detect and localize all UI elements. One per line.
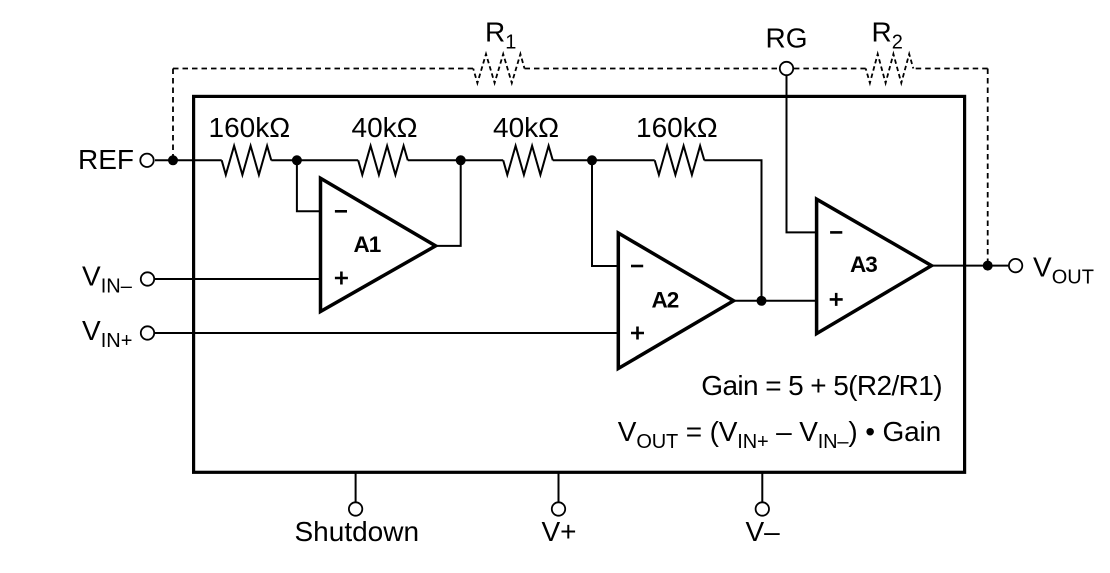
svg-text:VIN–: VIN–: [82, 261, 133, 298]
label R1: [485, 17, 516, 54]
node: junction dot B (A1 output tap): [456, 155, 466, 165]
wire: RG terminal down to A3 minus input: [787, 76, 817, 233]
pin Shutdown stub wire: [355, 472, 357, 501]
svg-text:Gain = 5 + 5(R2/R1): Gain = 5 + 5(R2/R1): [701, 370, 942, 401]
terminal RG (open circle): [780, 62, 793, 75]
svg-text:VOUT = (VIN+ – VIN–) • Gain: VOUT = (VIN+ – VIN–) • Gain: [618, 416, 941, 453]
node: junction dot A (A1 feedback tap): [292, 155, 302, 165]
label 160kOhm (first): [209, 112, 291, 143]
svg-text:VOUT: VOUT: [1033, 251, 1094, 288]
wire: dashed horizontal from RG terminal to R2: [794, 68, 866, 70]
svg-text:R1: R1: [485, 17, 516, 54]
wire: A3 output to VOUT terminal: [932, 265, 1009, 267]
wire: REF terminal to first resistor: [155, 159, 222, 161]
node: junction dot at VOUT: [983, 261, 993, 271]
terminal V- (open circle): [756, 502, 769, 515]
svg-text:V–: V–: [746, 516, 781, 547]
resistor 40k (third): [503, 146, 553, 175]
svg-text:160kΩ: 160kΩ: [209, 112, 291, 143]
label R2: [872, 17, 903, 54]
op-amp A3: [817, 199, 932, 333]
pin V+ stub wire: [558, 472, 560, 501]
wire: VIN- to A1 plus input: [155, 278, 321, 280]
svg-text:Shutdown: Shutdown: [295, 516, 420, 547]
terminal VOUT (open circle): [1009, 259, 1022, 272]
label V+: [542, 516, 577, 547]
wire: VIN+ to A2 plus input: [155, 332, 618, 334]
svg-text:40kΩ: 40kΩ: [493, 112, 559, 143]
wire: between resistor1 and resistor2: [271, 159, 358, 161]
terminal VIN+ (open circle): [141, 326, 154, 339]
resistor 160k (first): [222, 146, 272, 175]
svg-text:40kΩ: 40kΩ: [352, 112, 418, 143]
op-amp A2: [618, 233, 733, 369]
label V-: [746, 516, 781, 547]
svg-text:A3: A3: [850, 252, 877, 277]
node: junction dot C (A2 minus tap): [587, 155, 597, 165]
label REF: [78, 144, 134, 175]
wire: between resistor3 and resistor4: [553, 159, 655, 161]
label gain equation: [701, 370, 942, 401]
wire: dashed horizontal from R2 to right corner: [913, 68, 987, 70]
wire: dashed vertical from top-left down to REF node: [172, 69, 174, 161]
svg-text:A2: A2: [652, 287, 679, 312]
terminal V+ (open circle): [552, 502, 565, 515]
label VIN+: [82, 315, 132, 352]
pin V- stub wire: [761, 472, 763, 501]
svg-text:V+: V+: [542, 516, 577, 547]
svg-text:160kΩ: 160kΩ: [636, 112, 718, 143]
main IC boundary box: [194, 96, 965, 472]
wire: between resistor2 and resistor3: [408, 159, 503, 161]
resistor R1 (external, dashed zigzag): [473, 54, 524, 83]
label VOUT: [1033, 251, 1094, 288]
svg-text:REF: REF: [78, 144, 134, 175]
wire: dashed horizontal from R1 to RG terminal: [525, 68, 780, 70]
wire: dashed vertical right side down to VOUT node: [987, 69, 989, 266]
svg-text:RG: RG: [766, 23, 808, 54]
wire: A1 feedback from node A to minus input: [297, 160, 321, 211]
svg-text:VIN+: VIN+: [82, 315, 132, 352]
wire: A1 output up to node B: [436, 160, 461, 246]
label 40kOhm (second): [352, 112, 418, 143]
resistor R2 (external, dashed zigzag): [866, 54, 914, 83]
wire: node C down to A2 minus input: [592, 160, 618, 266]
wire: dashed horizontal top from left corner to R1: [173, 68, 473, 70]
wire: resistor4 to feedback corner: [704, 160, 761, 300]
label 160kOhm (fourth): [636, 112, 718, 143]
wire: A2 output to A3 plus input: [734, 300, 817, 302]
svg-text:R2: R2: [872, 17, 903, 54]
label 40kOhm (third): [493, 112, 559, 143]
terminal REF (open circle): [140, 154, 153, 167]
op-amp A1: [321, 178, 436, 311]
resistor 160k (fourth): [655, 146, 705, 175]
svg-text:A1: A1: [354, 232, 381, 257]
node: junction dot A2 output: [757, 296, 767, 306]
terminal VIN- (open circle): [141, 272, 154, 285]
label VIN-: [82, 261, 133, 298]
label output equation: [618, 416, 941, 453]
label RG: [766, 23, 808, 54]
node: junction dot on REF line under dashed drop: [168, 155, 178, 165]
label Shutdown: [295, 516, 420, 547]
terminal Shutdown (open circle): [349, 502, 362, 515]
resistor 40k (second): [358, 146, 408, 175]
